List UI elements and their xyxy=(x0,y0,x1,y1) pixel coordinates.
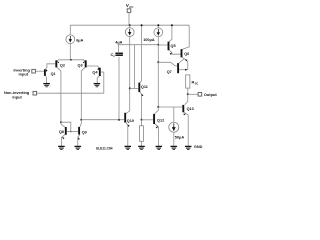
svg-text:SC: SC xyxy=(195,82,199,86)
svg-text:4μA: 4μA xyxy=(115,40,122,44)
svg-text:Q6: Q6 xyxy=(184,52,189,56)
svg-text:Q2: Q2 xyxy=(60,63,65,67)
svg-text:6μA: 6μA xyxy=(76,38,83,42)
svg-text:Q12: Q12 xyxy=(157,119,164,123)
svg-text:input: input xyxy=(19,72,29,77)
svg-text:Q7: Q7 xyxy=(167,70,172,74)
svg-text:Q3: Q3 xyxy=(78,63,83,67)
svg-text:Q1: Q1 xyxy=(51,72,56,76)
svg-text:50μA: 50μA xyxy=(175,135,185,139)
svg-text:Q11: Q11 xyxy=(141,85,148,89)
svg-text:100μA: 100μA xyxy=(143,38,155,42)
svg-text:GND: GND xyxy=(194,145,203,149)
svg-text:Q8: Q8 xyxy=(59,130,64,134)
svg-text:Q9: Q9 xyxy=(82,131,87,135)
svg-text:input: input xyxy=(12,95,22,100)
svg-text:ELE11.C84: ELE11.C84 xyxy=(96,146,113,150)
svg-text:CC: CC xyxy=(129,5,133,9)
svg-text:Q13: Q13 xyxy=(187,107,194,111)
svg-text:Q5: Q5 xyxy=(171,44,176,48)
svg-text:Q4: Q4 xyxy=(92,70,98,74)
svg-text:Output: Output xyxy=(204,92,217,97)
svg-text:Q10: Q10 xyxy=(127,119,134,123)
